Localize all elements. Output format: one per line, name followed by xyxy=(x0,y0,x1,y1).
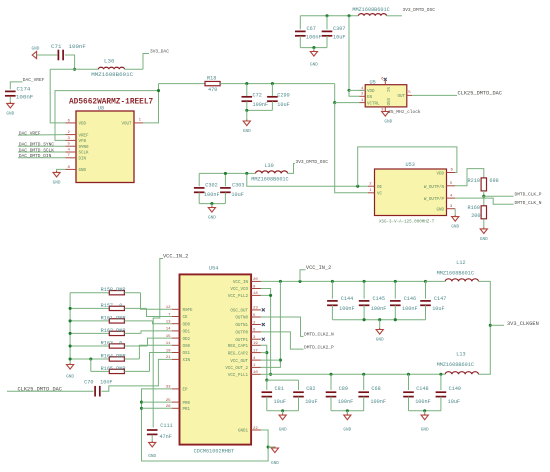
svg-text:RSTE: RSTE xyxy=(183,309,194,313)
no connect OSC_OUT xyxy=(262,308,265,311)
svg-text:DMTD_CLK_P: DMTD_CLK_P xyxy=(515,192,542,198)
wire xyxy=(483,219,485,229)
svg-text:OD0: OD0 xyxy=(183,323,191,327)
wire xyxy=(483,196,485,206)
svg-text:XSG-3-V-A-125.000MHZ-T: XSG-3-V-A-125.000MHZ-T xyxy=(379,221,435,225)
wire xyxy=(150,353,172,372)
svg-text:R161 DNP: R161 DNP xyxy=(101,315,126,321)
svg-text:17: 17 xyxy=(253,349,258,353)
junction xyxy=(439,373,442,376)
junction xyxy=(329,373,332,376)
svg-text:PR0: PR0 xyxy=(183,402,191,406)
svg-text:100nF: 100nF xyxy=(16,94,34,101)
pin 10 VCC_PLL1 of U54 xyxy=(251,373,261,375)
wire ground bus xyxy=(331,410,364,412)
wire DIN xyxy=(18,157,66,159)
wire xyxy=(147,308,172,316)
svg-text:GND: GND xyxy=(243,129,251,134)
pin 33 EP of U54 xyxy=(172,388,180,390)
junction xyxy=(362,373,365,376)
wire xyxy=(331,281,333,298)
svg-text:VREF: VREF xyxy=(79,134,90,138)
svg-text:MMZ1608B601C: MMZ1608B601C xyxy=(352,7,389,13)
wire DMTD_CLK2_N xyxy=(261,317,304,336)
svg-text:VOUT: VOUT xyxy=(121,123,132,127)
svg-text:VCC_IN_2: VCC_IN_2 xyxy=(163,254,188,260)
svg-text:OS0: OS0 xyxy=(183,345,191,349)
ground xyxy=(279,414,287,433)
inductor L30 xyxy=(251,163,288,183)
svg-text:GND: GND xyxy=(343,427,351,432)
wire xyxy=(408,374,410,390)
svg-text:C89: C89 xyxy=(339,386,348,392)
wire xyxy=(65,55,75,69)
wire xyxy=(330,397,332,411)
junction xyxy=(265,379,268,382)
wire VDD of U53 xyxy=(358,147,457,186)
capacitor C72 xyxy=(242,93,269,109)
junction xyxy=(245,172,248,175)
capacitor C111 xyxy=(147,423,173,440)
junction xyxy=(224,172,227,175)
pin 5 SYNC of U8 xyxy=(66,145,77,147)
svg-text:10: 10 xyxy=(253,371,258,375)
svg-text:R157 0: R157 0 xyxy=(101,303,123,309)
pin 21 XIN of U54 xyxy=(172,358,180,360)
pin 22 GND1 of U54 xyxy=(251,429,261,431)
capacitor C145 xyxy=(359,296,387,312)
svg-text:GND: GND xyxy=(208,216,216,221)
wire DMTD_CLK_N xyxy=(455,198,514,204)
svg-text:XIN: XIN xyxy=(183,359,191,363)
wire EN of U5 xyxy=(349,90,360,96)
svg-text:VDD: VDD xyxy=(436,172,444,176)
svg-text:GND: GND xyxy=(6,111,14,116)
wire xyxy=(298,380,300,390)
resistor R165 xyxy=(109,369,124,373)
svg-text:GND: GND xyxy=(66,375,74,380)
junction xyxy=(157,89,160,92)
svg-text:C302: C302 xyxy=(205,182,217,188)
wire xyxy=(426,280,446,282)
pin 7 DIN of U8 xyxy=(66,157,77,159)
svg-text:OUTN1: OUTN1 xyxy=(235,324,248,328)
junction xyxy=(423,409,426,412)
svg-text:C145: C145 xyxy=(373,296,385,302)
wire VDD of U5 xyxy=(349,89,365,91)
svg-text:47nF: 47nF xyxy=(159,434,171,440)
svg-text:DMTD_CLK2_N: DMTD_CLK2_N xyxy=(304,332,334,338)
wire xyxy=(271,84,273,96)
wire xyxy=(483,191,485,196)
svg-text:C67: C67 xyxy=(307,26,316,32)
svg-text:OUT: OUT xyxy=(397,95,405,99)
svg-text:100nF: 100nF xyxy=(204,192,220,198)
wire ground bus of C144-C147 xyxy=(332,319,425,321)
wire xyxy=(246,110,248,120)
wire xyxy=(70,332,109,334)
wire xyxy=(424,411,426,415)
svg-text:GND: GND xyxy=(79,169,87,173)
inductor L13 xyxy=(437,352,479,375)
svg-text:VC: VC xyxy=(377,193,383,197)
wire xyxy=(363,281,365,298)
wire xyxy=(199,203,225,205)
wire xyxy=(198,173,200,186)
svg-text:VCC_IN_2: VCC_IN_2 xyxy=(306,265,331,271)
junction xyxy=(69,344,72,347)
no connect OUTN1 xyxy=(262,323,265,326)
svg-text:W_OUTP/P: W_OUTP/P xyxy=(424,197,445,202)
pin 6 OUTP0 of U54 xyxy=(251,331,261,333)
svg-text:OD2: OD2 xyxy=(183,338,191,342)
svg-text:100nF: 100nF xyxy=(402,306,418,312)
svg-text:OSC_OUT: OSC_OUT xyxy=(230,310,248,314)
capacitor C303 xyxy=(220,182,244,197)
svg-text:100nF: 100nF xyxy=(370,399,386,405)
resistor R161 xyxy=(109,319,124,323)
pin 11 OS0 of U54 xyxy=(172,344,180,346)
svg-text:MMZ1608B601C: MMZ1608B601C xyxy=(437,271,474,277)
wire xyxy=(282,411,284,415)
wire xyxy=(326,36,328,48)
wire xyxy=(261,294,271,296)
wire xyxy=(425,281,427,298)
svg-text:GND: GND xyxy=(310,62,318,67)
svg-text:C71: C71 xyxy=(51,43,62,50)
junction xyxy=(69,332,72,335)
pin 9 VCC_VCO of U54 xyxy=(251,288,261,290)
svg-text:25: 25 xyxy=(166,399,171,403)
svg-text:26: 26 xyxy=(166,405,171,409)
junction xyxy=(69,357,72,360)
wire REG_CAP xyxy=(261,345,267,380)
junction xyxy=(424,280,427,283)
capacitor C71 xyxy=(51,43,86,60)
svg-text:100nF: 100nF xyxy=(339,306,355,312)
junction xyxy=(298,280,301,283)
svg-text:OD1: OD1 xyxy=(183,331,191,335)
wire VREF xyxy=(18,134,66,137)
wire xyxy=(143,54,149,70)
svg-text:OS1: OS1 xyxy=(183,352,191,356)
wire xyxy=(7,390,94,392)
capacitor C299 xyxy=(267,93,290,109)
svg-text:GND: GND xyxy=(480,237,488,242)
junction xyxy=(312,46,315,49)
resistor R160 xyxy=(468,205,487,219)
svg-text:OE: OE xyxy=(377,186,383,190)
svg-text:DIN: DIN xyxy=(79,158,87,162)
wire xyxy=(425,305,427,319)
capacitor C68 xyxy=(358,386,386,405)
wire xyxy=(153,321,172,324)
wire xyxy=(151,435,153,442)
resistor R164 xyxy=(109,357,124,361)
svg-text:23: 23 xyxy=(253,307,258,311)
pin 26 PR1 of U54 xyxy=(172,407,180,409)
svg-text:C149: C149 xyxy=(449,386,461,392)
svg-text:VFB: VFB xyxy=(79,140,87,144)
svg-text:12: 12 xyxy=(166,306,171,310)
svg-text:GND: GND xyxy=(451,225,459,230)
svg-text:SYNC: SYNC xyxy=(79,146,90,150)
resistor R18 xyxy=(205,81,220,85)
svg-text:REG_CAP1: REG_CAP1 xyxy=(228,345,249,349)
svg-text:R158 DNP: R158 DNP xyxy=(101,287,126,293)
ground xyxy=(243,120,251,135)
svg-text:22: 22 xyxy=(253,427,258,431)
svg-text:10uF: 10uF xyxy=(305,399,317,405)
pin 3 VFB of U8 xyxy=(66,139,77,141)
svg-text:100nF: 100nF xyxy=(338,399,354,405)
wire xyxy=(70,307,109,309)
svg-text:PR1: PR1 xyxy=(183,408,191,412)
ground xyxy=(343,414,351,433)
pin 1 VOUT of U8 xyxy=(134,122,143,124)
svg-text:VCC_VCO: VCC_VCO xyxy=(230,288,248,292)
junction xyxy=(331,280,334,283)
wire xyxy=(299,36,301,48)
pin 5 OUT of U5 xyxy=(407,94,412,96)
svg-text:VDD: VDD xyxy=(367,90,375,94)
wire VDD of U8 xyxy=(50,69,65,123)
junction xyxy=(210,202,213,205)
wire xyxy=(379,320,381,330)
svg-text:10uF: 10uF xyxy=(432,306,444,312)
wire xyxy=(266,397,268,411)
svg-text:14: 14 xyxy=(166,328,171,332)
junction xyxy=(363,318,366,321)
svg-text:R162 DNP: R162 DNP xyxy=(101,328,126,334)
wire OE supply xyxy=(247,173,368,186)
capacitor C70 xyxy=(84,379,112,396)
wire xyxy=(247,109,273,111)
wire ground rail of resistor bank xyxy=(69,293,71,365)
ground xyxy=(6,102,14,117)
pin 6 VDD of U8 xyxy=(66,122,77,124)
svg-text:VCC_PLL1: VCC_PLL1 xyxy=(228,374,249,378)
wire ground bus xyxy=(409,410,441,412)
pin 14 OD1 of U54 xyxy=(172,330,180,332)
resistor R210 xyxy=(468,178,499,191)
svg-text:VDD: VDD xyxy=(79,123,87,127)
svg-text:10uF: 10uF xyxy=(277,102,289,108)
pin 3 GND of U53 xyxy=(447,208,456,210)
svg-text:U5: U5 xyxy=(370,79,376,85)
pin 18 VCC_PLL2 of U54 xyxy=(251,294,261,296)
wire xyxy=(271,101,273,110)
capacitor C147 xyxy=(420,296,446,312)
junction xyxy=(394,280,397,283)
wire xyxy=(125,68,144,70)
svg-text:C147: C147 xyxy=(434,296,446,302)
wire xyxy=(261,352,267,354)
wire xyxy=(267,379,299,381)
wire xyxy=(70,345,109,347)
svg-text:R160: R160 xyxy=(468,205,480,211)
wire xyxy=(246,101,248,110)
pin 20 VCC_IN of U54 xyxy=(251,280,261,282)
svg-text:REG_CAP2: REG_CAP2 xyxy=(228,352,249,356)
junction xyxy=(347,89,350,92)
svg-text:GND1: GND1 xyxy=(238,430,249,434)
svg-text:DMTD_CLK_N: DMTD_CLK_N xyxy=(515,200,542,206)
svg-text:100nF: 100nF xyxy=(69,43,87,50)
wire VOUT xyxy=(143,84,159,123)
svg-text:CE: CE xyxy=(183,316,189,320)
wire xyxy=(148,338,172,346)
svg-text:GND: GND xyxy=(421,427,429,432)
junction xyxy=(394,318,397,321)
inductor MMZ1608B601C xyxy=(352,7,389,16)
svg-text:CLK25_DMTD_DAC: CLK25_DMTD_DAC xyxy=(458,90,503,96)
wire OUT xyxy=(412,94,457,96)
wire xyxy=(394,305,396,319)
pin 1 VCTRL of U5 xyxy=(360,102,366,104)
svg-text:R18: R18 xyxy=(207,75,216,81)
wire VCC_IN_2 rail xyxy=(261,280,426,282)
wire xyxy=(266,380,268,390)
svg-text:20: 20 xyxy=(253,278,258,282)
wire xyxy=(124,292,140,294)
junction xyxy=(69,307,72,310)
svg-text:33: 33 xyxy=(166,386,171,390)
resistor R158 xyxy=(109,291,124,295)
inductor L12 xyxy=(437,260,479,281)
svg-text:U53: U53 xyxy=(406,162,415,168)
svg-text:C144: C144 xyxy=(341,296,353,302)
wire xyxy=(346,411,348,415)
junction xyxy=(356,185,359,188)
svg-text:W_OUTP/N: W_OUTP/N xyxy=(424,185,445,190)
svg-text:C307: C307 xyxy=(333,26,345,32)
svg-text:SCLK: SCLK xyxy=(79,152,90,156)
svg-text:CDCM61002RHBT: CDCM61002RHBT xyxy=(194,449,234,455)
svg-text:GND: GND xyxy=(385,98,389,106)
svg-text:L36: L36 xyxy=(104,57,115,64)
junction xyxy=(281,409,284,412)
junction xyxy=(489,324,492,327)
svg-text:VCC_OUT_2: VCC_OUT_2 xyxy=(225,367,248,371)
svg-text:C146: C146 xyxy=(404,296,416,302)
wire VCC_OUT xyxy=(261,359,281,361)
svg-text:GND: GND xyxy=(376,338,384,343)
junction xyxy=(269,373,272,376)
svg-text:19: 19 xyxy=(253,342,258,346)
svg-text:GND: GND xyxy=(384,120,392,125)
IC U54 CDCM61002RHBT xyxy=(180,265,252,444)
wire XIN xyxy=(102,359,172,391)
junction xyxy=(267,445,270,448)
capacitor C149 xyxy=(436,386,461,405)
pin 12 RSTE of U54 xyxy=(172,308,180,310)
wire xyxy=(70,358,109,360)
wire xyxy=(141,293,172,310)
wire xyxy=(363,397,365,411)
ground xyxy=(480,227,488,242)
wire xyxy=(246,84,248,96)
svg-text:100nF: 100nF xyxy=(253,102,269,108)
pin 25 PR0 of U54 xyxy=(172,401,180,403)
wire ground bus xyxy=(267,410,299,412)
capacitor C67 xyxy=(295,26,322,41)
svg-text:3V3_CLKGEN: 3V3_CLKGEN xyxy=(507,321,539,327)
svg-text:U54: U54 xyxy=(209,265,218,271)
pin 5 OUTN0 of U54 xyxy=(251,316,261,318)
ground xyxy=(451,215,459,230)
svg-text:U8: U8 xyxy=(98,106,104,112)
junction xyxy=(347,14,350,17)
wire xyxy=(363,305,365,319)
IC U53 oscillator 125MHz xyxy=(375,162,447,216)
svg-text:AD5662WARMZ-1REEL7: AD5662WARMZ-1REEL7 xyxy=(69,98,154,106)
svg-text:10: 10 xyxy=(166,349,171,353)
wire VCC_PLL1 xyxy=(261,373,271,375)
svg-text:MMZ1608B601C: MMZ1608B601C xyxy=(251,177,288,183)
IC U5 25MHz oscillator xyxy=(365,79,407,106)
svg-text:C111: C111 xyxy=(160,423,172,429)
svg-text:VCC_OUT: VCC_OUT xyxy=(230,360,248,364)
junction xyxy=(363,280,366,283)
svg-text:C174: C174 xyxy=(17,86,31,93)
wire xyxy=(220,83,335,85)
wire VCC_IN_2 xyxy=(153,259,163,428)
svg-text:R163 0: R163 0 xyxy=(101,340,123,346)
wire xyxy=(298,397,300,411)
junction xyxy=(269,294,272,297)
pin 6 VDD of U53 xyxy=(447,172,456,174)
wire VCC chain xyxy=(261,289,271,375)
pin 1 VCC_OUT_2 of U54 xyxy=(251,366,261,368)
pin 3 GND of U5 xyxy=(384,107,386,111)
svg-text:15: 15 xyxy=(166,335,171,339)
pin 4 VCC_OUT of U54 xyxy=(251,359,261,361)
junction xyxy=(378,318,381,321)
svg-text:OUTP0: OUTP0 xyxy=(235,332,248,336)
capacitor C174 xyxy=(5,91,16,97)
svg-text:100nF: 100nF xyxy=(371,306,387,312)
ground xyxy=(66,363,74,380)
wire xyxy=(454,209,456,217)
pin 5 W_OUTP/N of U53 xyxy=(447,185,456,187)
wire DMTD_CLK2_P xyxy=(261,332,304,349)
resistor R163 xyxy=(109,344,124,348)
svg-text:L12: L12 xyxy=(456,260,465,266)
resistor R162 xyxy=(109,331,124,335)
wire xyxy=(50,68,98,70)
wire GND of U8 xyxy=(57,169,66,172)
wire 3V3_CLKGEN xyxy=(479,281,491,374)
svg-text:DMTD_CLK2_P: DMTD_CLK2_P xyxy=(304,344,334,350)
wire xyxy=(159,83,206,85)
svg-text:GND: GND xyxy=(53,180,61,185)
svg-text:L13: L13 xyxy=(456,352,465,358)
pin 3 OUTP1 of U54 xyxy=(251,338,261,340)
capacitor C146 xyxy=(390,296,418,312)
no connect OUTP1 xyxy=(262,338,265,341)
wire xyxy=(139,345,172,359)
wire xyxy=(124,320,152,322)
wire xyxy=(440,374,442,390)
junction xyxy=(482,195,485,198)
pin 8 GND of U8 xyxy=(66,168,77,170)
wire lower rail xyxy=(271,373,446,375)
pin 4 VDD of U5 xyxy=(360,89,366,91)
svg-text:C299: C299 xyxy=(277,93,289,99)
wire xyxy=(300,270,306,282)
svg-text:698: 698 xyxy=(489,178,498,184)
